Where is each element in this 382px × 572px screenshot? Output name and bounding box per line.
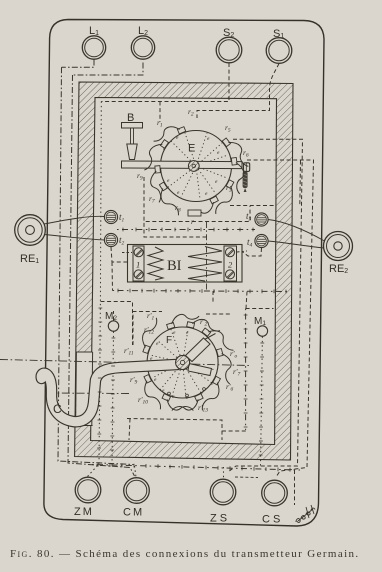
labels around F [124,311,241,414]
wire M2 top loop [101,302,133,346]
dash-dot wire below handle [47,392,130,395]
svg-text:E: E [188,143,195,155]
commutator E wheel [122,131,250,202]
pad+spring r'11 left [160,394,195,418]
terminal CS [262,480,288,506]
bottom pad of E box [188,210,201,216]
wire M2 left vertical [99,102,101,465]
terminal RE2 [324,232,353,261]
bottom bus wire above terminals [92,465,300,471]
wire below BI (dash-dot bus) [113,291,291,292]
wire RE2 to t3 [268,220,325,242]
frame wall inner edge [91,98,277,445]
terminal ZM [75,477,101,503]
crank handle C (inner fill) [41,365,177,422]
tiny rim contacts on F bottom [168,392,171,395]
contact pads and springs around F [138,309,238,417]
wire down to ZS [223,467,225,478]
resistance box BI [128,245,243,283]
key B [122,112,143,160]
wire from S1 down into box [197,64,279,119]
screw on block 2 bottom [226,270,235,279]
stub right of BI [237,251,247,252]
wire down to CS [294,470,296,505]
terminal L2 [131,36,154,59]
wire M1 top to wall [246,308,274,310]
key plunger [127,144,137,160]
pad+spring r6 (right) [151,122,186,144]
svg-text:1: 1 [136,260,140,270]
key stem [131,128,134,144]
wire t4 to block 2 [240,248,262,256]
rotor arm lower-right [188,364,212,376]
svg-text:F: F [166,335,172,346]
terminal ZS [210,479,236,505]
pad+spring r1 (top-left) [154,182,182,218]
pad+spring r'n right [187,316,222,333]
bar end cap [244,163,250,172]
axis line of crank through F [0,360,250,366]
frame wall outer edge [75,82,293,460]
screw terminal t4 [255,234,268,247]
case outline of transmitter box [44,20,324,527]
junction stub down from BI bus left-mid [212,291,214,302]
left margin wire A (dash-dot vertical) [58,67,134,464]
wire t2 down [111,247,128,291]
hub of E [188,161,199,172]
coil winding right of BI [188,247,222,282]
dashed enclosure box around commutator E [144,177,276,222]
svg-text:CS: CS [262,514,283,526]
wire above BI horizontal [144,222,207,237]
terminal CM [124,478,150,504]
engraver signature [296,505,315,523]
screw on block 1 top [134,248,143,257]
svg-text:C: C [53,402,62,416]
slot in left wall for handle [76,352,92,426]
wire F box bottom to bus [129,419,130,441]
wire r5 to right margin [228,139,303,472]
pad+spring r'13 bottom [216,347,236,385]
terminal L1 [82,36,105,59]
screw terminal t1 [104,210,117,223]
coil winding left of BI [148,247,163,280]
pad+spring r'1 top-left [139,375,164,413]
junction stub at right margin [299,161,302,206]
pad+spring r2 (top) [149,166,163,203]
stub left of BI [122,252,132,254]
terminal RE1 [15,215,46,246]
wire RE2 to t4 [268,241,324,248]
crank handle C (outer) [41,365,177,422]
commutator F wheel [147,327,218,398]
svg-text:Fig. 80. — Schéma des connexio: Fig. 80. — Schéma des connexions du tran… [10,548,360,560]
key cap [122,123,143,129]
svg-text:ZM: ZM [74,506,94,518]
svg-text:CM: CM [123,507,144,519]
stub near CS [235,476,258,479]
junction tick marks on wires [97,228,290,472]
wire M1 left vertical [245,309,247,431]
wire r6 to right margin [247,160,314,477]
pad+spring r'o right-up [165,309,200,329]
junction stub down from BI bus right-mid [246,292,247,309]
terminal S1 [266,38,292,64]
wheel rim E [161,131,232,202]
wire to ZM [88,466,98,477]
wheel rim F [147,327,218,398]
hatched frame wall of inner box [75,82,293,460]
hub of F [176,356,190,370]
pad+spring left-low [186,196,220,221]
terminal S2 [216,37,242,63]
wire from L1 down [62,60,95,68]
pad+spring bottom-left [212,180,239,217]
wire through BI vertical [206,222,208,291]
wire M1 down [261,337,263,467]
brush bar of E [122,161,243,169]
dotted spokes F [150,330,216,398]
pad+spring r'a top [138,316,160,354]
terminal M2 [108,321,118,331]
dashed enclosure around commutator F [127,312,247,441]
BI outer box [128,245,243,283]
BI right terminal block [224,246,237,281]
wire RE1 to t2 [44,235,105,241]
rotor arm upper-right [186,334,216,362]
hub of F redrawn over handle [176,356,190,370]
contact pads and springs around E [139,122,253,221]
pad+spring r'10 bottom-left [199,376,226,413]
svg-text:ZS: ZS [210,513,230,525]
svg-text:r: r [191,217,194,226]
tiny contact letters inside F [150,330,214,401]
svg-text:BI: BI [167,258,182,274]
wire from L2 down [73,63,144,76]
hanging spring r4 below bar end [243,172,248,189]
pad+spring bottom [231,157,246,195]
wire RE1 to t1 [44,216,105,224]
pad+spring r'9 left-down [171,394,206,418]
labels around E [137,107,249,214]
pad+spring bottom-right [222,134,253,169]
wire from S2 down into box [101,63,229,122]
wire M2 down [112,332,114,466]
dotted spokes E [167,133,228,199]
screw on block 2 top [226,248,235,257]
pad+spring r'6 right-down [202,323,237,354]
screw terminal t3 [255,213,268,226]
screw on block 1 bottom [134,270,143,279]
pad+spring r5 (top-right) [139,136,169,172]
BI left terminal block [133,246,144,281]
wire to CM [135,466,137,477]
wire t1 to t3 (dash-dot across) [117,229,255,231]
screw terminal t2 [104,233,117,246]
tiny contact letters inside E [163,135,220,197]
terminal M1 [257,326,267,336]
left margin wire B (dash-dot vertical) [68,75,135,476]
